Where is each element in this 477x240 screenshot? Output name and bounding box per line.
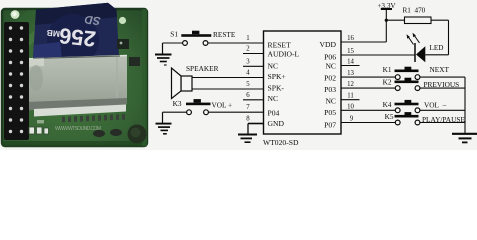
wire K2 right to ground bus <box>420 87 465 89</box>
pin 13 stub + wire to K1 <box>341 76 395 78</box>
svg-text:15: 15 <box>347 48 354 55</box>
photo: bottom components <box>93 130 105 137</box>
pin 10 stub + wire to K4 <box>341 109 395 111</box>
svg-text:SPK+: SPK+ <box>268 72 286 81</box>
svg-text:NC: NC <box>325 62 336 71</box>
wire R1 to corner <box>431 19 449 21</box>
svg-text:13: 13 <box>347 70 354 77</box>
photo: black pin header <box>4 22 29 140</box>
svg-text:PLAY/PAUSE: PLAY/PAUSE <box>422 115 465 124</box>
svg-text:P04: P04 <box>268 109 280 118</box>
svg-text:P07: P07 <box>324 121 336 130</box>
svg-text:SPEAKER: SPEAKER <box>186 64 219 73</box>
pin 8 GND stub <box>248 123 264 125</box>
wire K3 left to ground <box>163 111 187 113</box>
svg-text:2: 2 <box>246 46 250 53</box>
wire S1 left to ground <box>163 42 183 44</box>
svg-text:3: 3 <box>246 58 250 65</box>
+3.3V rail bar <box>381 8 392 10</box>
pin 2 stub <box>243 53 264 55</box>
ground bus vertical <box>464 77 466 134</box>
svg-text:1: 1 <box>246 35 249 42</box>
pushbutton S1 <box>181 31 211 46</box>
pin 5 stub + wire to speaker <box>192 88 264 90</box>
svg-text:K4: K4 <box>383 100 392 109</box>
wire corner down <box>448 20 450 55</box>
ground at button bus <box>452 134 477 143</box>
photo: indicator dot top-left <box>11 10 20 19</box>
svg-text:VDD: VDD <box>320 40 337 49</box>
pin 14 stub <box>341 65 360 67</box>
IC pin numbers left <box>246 35 250 122</box>
photo: SD card metal socket <box>24 56 127 123</box>
pin 7 stub + wire to K3 <box>208 111 263 113</box>
pin 3 stub <box>243 65 264 67</box>
pushbutton K2 <box>395 78 420 91</box>
svg-text:SPK-: SPK- <box>268 84 285 93</box>
svg-text:5: 5 <box>246 81 250 88</box>
pushbutton K1 <box>395 67 420 80</box>
svg-text:NC: NC <box>325 97 336 106</box>
svg-text:NEXT: NEXT <box>430 65 450 74</box>
pin 6 stub <box>243 99 264 101</box>
pin 15 stub + wire to LED <box>341 54 416 56</box>
+3.3V riser wire <box>385 9 387 42</box>
svg-text:8: 8 <box>246 116 250 123</box>
svg-text:R1 470: R1 470 <box>403 6 426 14</box>
svg-text:K5: K5 <box>385 112 394 121</box>
pin 4 stub + wire to speaker <box>192 77 264 79</box>
photo: SMD parts right edge <box>117 39 129 49</box>
svg-text:6: 6 <box>246 92 250 99</box>
svg-text:VOL –: VOL – <box>424 101 447 110</box>
wire K5 right to ground bus <box>420 122 465 124</box>
svg-text:256: 256 <box>58 23 97 52</box>
svg-text:P06: P06 <box>324 53 336 62</box>
IC U1 WT020-SD body <box>264 31 342 134</box>
speaker LS1 <box>172 68 193 99</box>
pushbutton K3 <box>186 99 211 115</box>
svg-text:S1: S1 <box>170 29 178 38</box>
wire corner to LED anode <box>425 54 448 56</box>
svg-text:AUDIO-L: AUDIO-L <box>268 49 300 58</box>
svg-text:P02: P02 <box>324 74 336 83</box>
svg-text:LED: LED <box>430 44 444 52</box>
svg-text:K3: K3 <box>173 99 182 108</box>
wire K1 right to ground bus <box>420 76 465 78</box>
svg-text:PREVIOUS: PREVIOUS <box>424 80 460 89</box>
schematic <box>192 9 416 134</box>
resistor R1 body <box>405 17 432 24</box>
svg-text:NC: NC <box>268 61 279 70</box>
svg-text:P05: P05 <box>324 108 336 117</box>
ground at K3 <box>156 112 172 134</box>
svg-text:9: 9 <box>350 116 354 123</box>
pin 11 stub <box>341 99 360 101</box>
svg-text:SD: SD <box>84 13 101 27</box>
IC pin labels left column <box>268 41 300 128</box>
photo: indicator dot top-right <box>119 17 126 24</box>
svg-text:K2: K2 <box>383 78 392 87</box>
svg-text:NC: NC <box>268 94 279 103</box>
pin 16 stub + wire to +3.3V <box>341 41 386 43</box>
wire K4 right to ground bus <box>420 109 465 111</box>
svg-text:4: 4 <box>246 70 250 77</box>
svg-text:11: 11 <box>347 93 354 100</box>
svg-text:14: 14 <box>347 59 354 66</box>
svg-text:P03: P03 <box>324 85 336 94</box>
svg-text:10: 10 <box>347 103 354 110</box>
photo: jumper pads bottom-left <box>29 127 49 134</box>
svg-text:+3.3V: +3.3V <box>377 2 396 10</box>
ground at IC GND pin <box>238 124 257 143</box>
svg-text:RESTE: RESTE <box>213 30 236 39</box>
svg-text:WT020-SD: WT020-SD <box>263 138 299 147</box>
svg-text:GND: GND <box>268 119 285 128</box>
IC pin labels right column <box>320 40 337 129</box>
svg-text:VOL +: VOL + <box>212 100 233 109</box>
svg-text:12: 12 <box>347 81 354 88</box>
pin 9 stub + wire to K5 <box>341 122 395 124</box>
photo: SD card (256 MB, upside down) <box>33 3 119 66</box>
LED D1 <box>407 33 426 63</box>
scan speck <box>164 64 167 65</box>
pin 12 stub + wire to K2 <box>341 87 395 89</box>
svg-text:MB: MB <box>46 28 60 39</box>
svg-text:WWW.WTSOUND.COM: WWW.WTSOUND.COM <box>55 126 101 132</box>
photo: PCB module board <box>2 9 147 147</box>
IC pin numbers right <box>347 35 354 122</box>
ground at S1 <box>155 43 172 62</box>
pin 1 stub + wire to S1 <box>208 42 264 44</box>
svg-text:K1: K1 <box>383 65 392 74</box>
svg-text:7: 7 <box>246 104 250 111</box>
svg-text:16: 16 <box>347 35 354 42</box>
wire +3.3V to R1 <box>386 19 404 21</box>
pushbutton K4 <box>395 100 420 113</box>
pushbutton K5 <box>395 112 420 125</box>
